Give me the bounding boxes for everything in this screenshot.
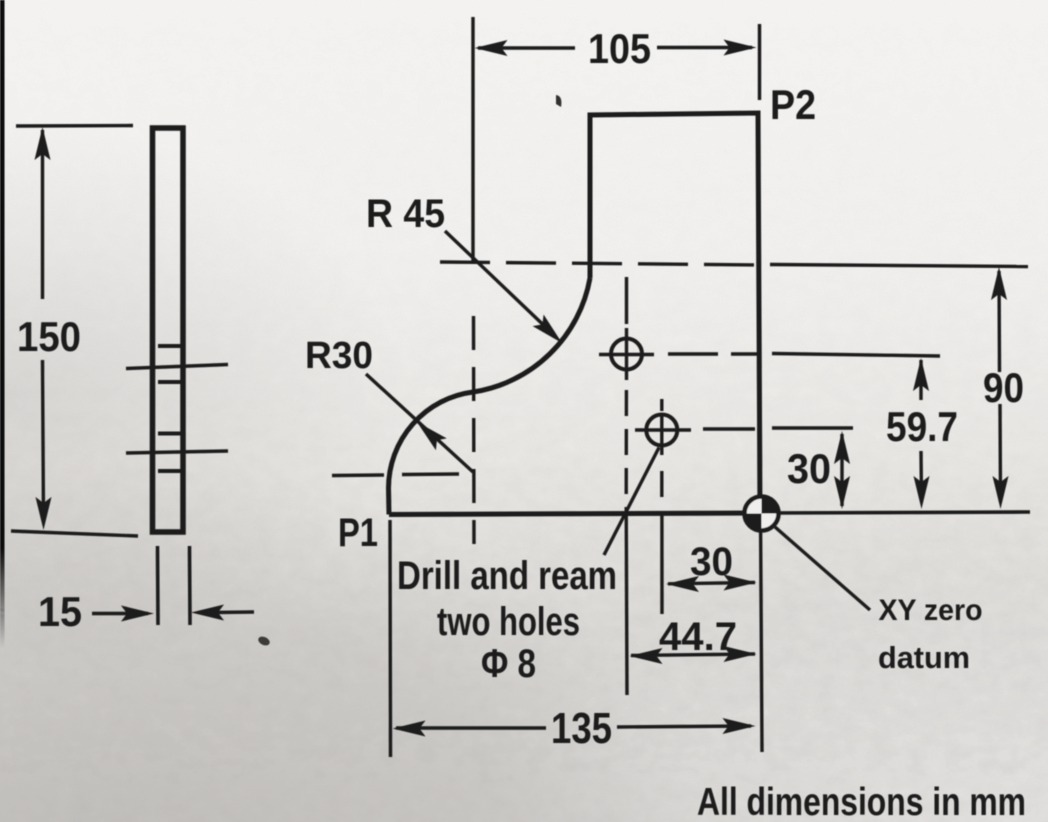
dimension 135: dimension line right segment xyxy=(617,726,751,727)
dimension 44.7: dimension line xyxy=(631,654,755,656)
svg-text:All dimensions in mm: All dimensions in mm xyxy=(697,781,1026,822)
R30 centre mark left tick xyxy=(332,473,384,477)
dimension 15: right-pointing arrowhead xyxy=(121,606,154,622)
svg-text:R 45: R 45 xyxy=(366,192,445,236)
hole 1 extension line down to 44.7 dimension xyxy=(625,507,629,695)
hole 2 vertical centre line above xyxy=(660,399,663,411)
svg-text:XY zero: XY zero xyxy=(879,594,983,627)
dimension 105: right extension line above P2 xyxy=(758,24,761,100)
leader line from hole 2 to drilling note xyxy=(604,448,659,556)
part bottom edge continuation to right margin xyxy=(760,512,1030,513)
R30 leader arrowhead xyxy=(417,422,447,450)
XY zero datum target symbol xyxy=(743,495,781,533)
svg-text:Drill and ream: Drill and ream xyxy=(397,554,617,598)
dimension 59.7: down arrowhead xyxy=(914,476,930,509)
hole 1 vertical centre line through hole xyxy=(625,328,628,380)
dimension 44.7: right arrowhead xyxy=(724,646,757,662)
hole 2 vertical centre line through hole xyxy=(660,413,663,455)
R30 centre mark right tick xyxy=(402,472,459,476)
dimension 90: down arrowhead xyxy=(993,476,1009,509)
hole 1 vertical centre line above xyxy=(625,277,628,324)
dimension 105: left extension line dashed continuation through part xyxy=(472,316,476,544)
part outline (top, right column, S-curve of R45 and R30, P1 corner) xyxy=(590,113,760,513)
hole 1 vertical centre line dashed below xyxy=(625,390,629,502)
dimension 30 (horizontal): left arrowhead xyxy=(666,576,699,592)
hole 1 horizontal centre line dashed to right xyxy=(668,352,757,355)
dimension 135: right extension line (below datum) xyxy=(761,513,763,752)
dimension 30 (horizontal): dimension line xyxy=(668,583,755,584)
dimension 135: dimension line left segment xyxy=(396,726,546,729)
hole 2 horizontal centre line xyxy=(635,428,691,431)
hole 1 centre line extension right of part (59.7 datum line) xyxy=(772,354,940,357)
hole 2 extension line down to 30 dimension xyxy=(660,514,663,614)
dimension 105: right arrowhead xyxy=(724,40,757,56)
dimension 150: vertical dimension line lower segment xyxy=(43,360,44,521)
svg-text:59.7: 59.7 xyxy=(886,403,958,450)
svg-text:90: 90 xyxy=(983,364,1024,411)
hole 2 vertical centre line dash below xyxy=(660,471,663,497)
dimension 90: up arrowhead xyxy=(991,267,1007,300)
dimension 15: right extension line below plate xyxy=(188,546,192,625)
hole 2 circle xyxy=(646,415,677,446)
svg-text:30: 30 xyxy=(690,540,733,584)
dimension 15: left-pointing arrowhead xyxy=(191,605,224,621)
svg-text:P1: P1 xyxy=(338,511,378,555)
horizontal centre line continuation right of part xyxy=(770,265,1028,267)
dimension 150: vertical dimension line upper segment xyxy=(41,130,44,299)
R30 leader line xyxy=(366,374,473,472)
svg-text:135: 135 xyxy=(551,704,612,753)
dimension 90: dimension line upper segment xyxy=(997,271,1001,372)
dimension 59.7: dimension line lower segment xyxy=(919,451,923,500)
dimension 15: right arrow shaft xyxy=(213,610,254,614)
svg-text:30: 30 xyxy=(787,445,831,492)
dimension 30 (vertical): up arrowhead xyxy=(834,431,850,464)
dimension 30 (vertical): dimension line xyxy=(840,434,843,506)
side view: hole 2 hidden line lower dash xyxy=(158,469,181,473)
dimension 44.7: left arrowhead xyxy=(630,648,663,664)
side view: hole 1 centre line across plate xyxy=(126,365,228,369)
dimension 30 (vertical): down arrowhead xyxy=(834,476,850,509)
datum leader line xyxy=(775,527,870,610)
dimension 15: left extension line below plate xyxy=(156,546,160,625)
side view: hole 1 hidden line lower dash xyxy=(158,380,181,384)
hole 1 circle xyxy=(611,339,642,370)
R45 leader line xyxy=(445,231,556,337)
svg-text:P2: P2 xyxy=(770,81,816,128)
dimension 30 (horizontal): right arrowhead xyxy=(724,575,757,591)
side view: hole 1 hidden line upper dash xyxy=(158,344,181,348)
dimension 150: up arrowhead xyxy=(35,127,51,160)
stray ink speck (below 15 dim) xyxy=(257,635,271,647)
dimension 105: left extension line xyxy=(471,17,474,263)
side view: bottom extension line of 150 dim xyxy=(11,531,138,536)
dimension 105: dimension line left segment xyxy=(478,46,575,49)
svg-text:105: 105 xyxy=(588,25,651,72)
svg-text:150: 150 xyxy=(17,313,81,360)
hole 2 horizontal centre line dashed to right xyxy=(703,427,757,430)
part outline bottom edge (P1 to datum) xyxy=(389,513,760,515)
stray ink speck (top middle) xyxy=(556,95,561,107)
dimension 105: left arrowhead xyxy=(475,40,508,56)
dimension 105: dimension line right segment xyxy=(657,46,752,49)
side view plate outline xyxy=(153,128,184,532)
scan page edge (left black strip) xyxy=(0,0,5,548)
hole 1 horizontal centre line xyxy=(599,353,654,356)
dimension 15: left arrow shaft xyxy=(92,612,148,615)
dimension 135: right arrowhead xyxy=(723,718,756,734)
side view: hole 2 centre line across plate xyxy=(126,451,228,453)
svg-text:15: 15 xyxy=(38,588,82,635)
dimension 135: left arrowhead xyxy=(393,721,426,737)
dimension 135: left extension line (below P1) xyxy=(388,520,392,757)
svg-text:44.7: 44.7 xyxy=(659,615,737,659)
hole 2 centre line extension right of part (30 datum line) xyxy=(772,426,853,429)
side view: hole 2 hidden line upper dash xyxy=(158,432,181,436)
svg-text:datum: datum xyxy=(878,640,970,675)
dimension 150: down arrowhead xyxy=(36,497,52,530)
svg-text:two holes: two holes xyxy=(437,600,580,644)
horizontal centre line through R45 centre (dashed) xyxy=(440,262,762,265)
dimension 59.7: up arrowhead xyxy=(913,358,929,391)
side view: top extension line of 150 dim xyxy=(16,124,133,128)
svg-text:Φ 8: Φ 8 xyxy=(481,642,536,686)
dimension 59.7: dimension line upper segment xyxy=(919,360,922,400)
R45 leader arrowhead xyxy=(533,315,562,344)
dimension 90: dimension line lower segment xyxy=(998,404,1002,500)
svg-text:R30: R30 xyxy=(305,335,373,377)
